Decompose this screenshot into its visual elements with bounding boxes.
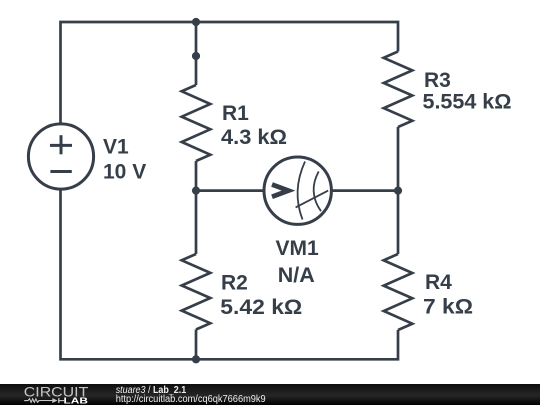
- svg-text:7 kΩ: 7 kΩ: [423, 296, 473, 319]
- svg-text:10 V: 10 V: [103, 161, 146, 184]
- svg-text:5.42 kΩ: 5.42 kΩ: [220, 296, 302, 319]
- svg-text:R3: R3: [424, 69, 451, 92]
- svg-text:N/A: N/A: [278, 264, 315, 287]
- svg-text:LAB: LAB: [64, 396, 88, 405]
- svg-text:VM1: VM1: [276, 237, 320, 260]
- svg-text:http://circuitlab.com/cq6qk766: http://circuitlab.com/cq6qk7666m9k9: [116, 394, 266, 405]
- svg-text:4.3 kΩ: 4.3 kΩ: [221, 126, 287, 149]
- svg-text:R1: R1: [222, 102, 249, 125]
- svg-text:R2: R2: [221, 272, 248, 295]
- svg-text:5.554 kΩ: 5.554 kΩ: [423, 91, 512, 114]
- svg-text:V1: V1: [103, 136, 129, 159]
- svg-text:R4: R4: [425, 271, 452, 294]
